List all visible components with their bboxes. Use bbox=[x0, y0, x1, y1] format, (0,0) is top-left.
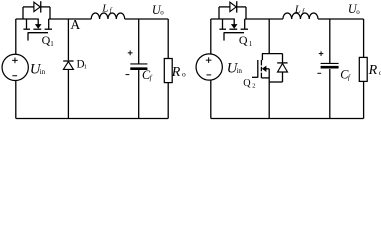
svg-text:1: 1 bbox=[50, 40, 54, 48]
svg-text:Q: Q bbox=[42, 33, 51, 47]
svg-text:L: L bbox=[101, 2, 108, 14]
svg-text:f: f bbox=[302, 8, 305, 16]
svg-text:A: A bbox=[70, 17, 80, 32]
svg-text:f: f bbox=[150, 74, 153, 82]
svg-text:in: in bbox=[40, 68, 46, 76]
svg-text:1: 1 bbox=[84, 63, 87, 70]
svg-text:in: in bbox=[236, 67, 242, 75]
svg-text:R: R bbox=[368, 63, 378, 78]
svg-text:Q: Q bbox=[243, 78, 251, 89]
svg-text:L: L bbox=[294, 3, 301, 15]
svg-text:2: 2 bbox=[252, 83, 255, 90]
svg-text:Q: Q bbox=[239, 33, 248, 47]
svg-text:R: R bbox=[171, 65, 181, 80]
svg-text:o: o bbox=[160, 9, 164, 17]
svg-text:o: o bbox=[182, 70, 186, 79]
svg-text:1: 1 bbox=[249, 40, 253, 48]
svg-text:o: o bbox=[356, 8, 360, 16]
svg-text:f: f bbox=[348, 73, 351, 81]
